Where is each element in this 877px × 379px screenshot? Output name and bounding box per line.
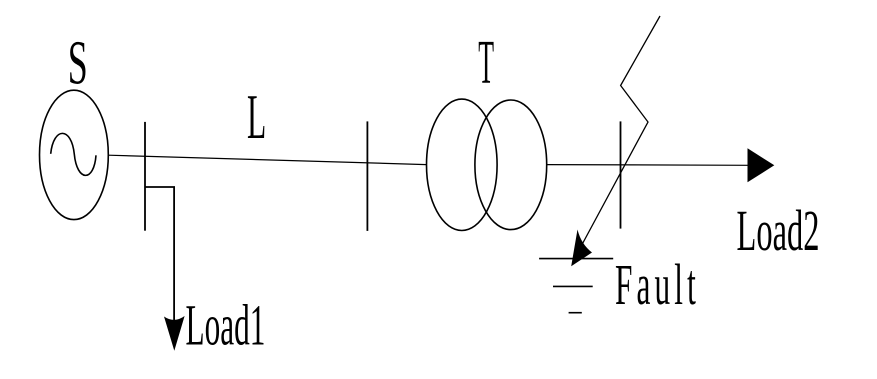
label S bbox=[68, 28, 88, 98]
wire main line right segment bbox=[547, 164, 750, 167]
ground line 3 bbox=[569, 312, 582, 314]
svg-text:Load2: Load2 bbox=[737, 199, 820, 263]
label Fault bbox=[615, 253, 700, 318]
svg-text:T: T bbox=[478, 28, 494, 97]
label L bbox=[247, 82, 266, 152]
ground line 1 bbox=[539, 258, 613, 260]
arrow head fault bbox=[571, 230, 592, 267]
source circle S bbox=[40, 90, 109, 219]
arrow head Load2 bbox=[748, 148, 775, 182]
svg-text:S: S bbox=[68, 28, 88, 98]
svg-text:Fault: Fault bbox=[615, 253, 700, 318]
ground line 2 bbox=[553, 285, 593, 287]
label Load2 bbox=[737, 199, 820, 263]
transformer winding 1 bbox=[427, 99, 498, 230]
bus bar 3 bbox=[620, 121, 622, 228]
transformer winding 2 bbox=[475, 100, 547, 230]
bus bar 2 bbox=[366, 121, 368, 230]
svg-text:Load1: Load1 bbox=[186, 293, 266, 358]
label T bbox=[478, 28, 494, 97]
bus bar 1 bbox=[144, 122, 146, 231]
wire main line left segment bbox=[108, 155, 426, 164]
fault lightning bolt bbox=[578, 16, 660, 252]
wire load1 tap bbox=[145, 187, 174, 320]
arrow head Load1 bbox=[164, 316, 185, 351]
label Load1 bbox=[186, 293, 266, 358]
sine symbol bbox=[51, 133, 96, 175]
svg-text:L: L bbox=[247, 82, 266, 152]
